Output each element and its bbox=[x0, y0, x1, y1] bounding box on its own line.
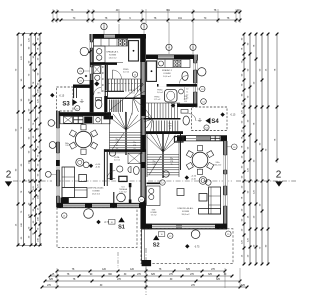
svg-text:11: 11 bbox=[186, 92, 188, 94]
bathroom wall left unit bbox=[105, 65, 107, 90]
windows in right wall upper bbox=[193, 63, 197, 70]
svg-text:14,6 m2: 14,6 m2 bbox=[163, 76, 172, 78]
svg-text:5,0 m2: 5,0 m2 bbox=[123, 72, 130, 74]
terrace step label right bbox=[158, 232, 165, 237]
WC toilet right unit top bbox=[182, 72, 188, 81]
svg-text:+0.10: +0.10 bbox=[191, 176, 197, 178]
svg-text:178: 178 bbox=[133, 145, 136, 147]
left stair landing dark edge bbox=[105, 97, 142, 99]
bathroom wc dark diamond bbox=[94, 81, 99, 86]
bathroom tub left unit bbox=[93, 66, 100, 74]
wc diamond right unit bbox=[171, 103, 176, 108]
right stair landing dark edge bbox=[144, 118, 181, 120]
dining round table left unit bbox=[75, 131, 91, 147]
svg-text:25x: 25x bbox=[116, 139, 119, 141]
S2 entrance marker bbox=[153, 235, 159, 240]
right unit top-right corner pier bbox=[193, 55, 198, 61]
mid bathroom door swing bbox=[107, 171, 115, 179]
porch toilet right unit bbox=[183, 116, 189, 125]
window in left wall upper bbox=[90, 42, 93, 48]
svg-text:49: 49 bbox=[116, 145, 118, 147]
svg-text:SPAVACA S.: SPAVACA S. bbox=[106, 50, 119, 53]
circled number on party wall bbox=[139, 197, 145, 203]
circled number in hall bbox=[132, 72, 137, 77]
bottom wall windows left unit bbox=[63, 204, 85, 207]
window in right unit top wall bbox=[158, 55, 174, 58]
svg-text:1,20 m2: 1,20 m2 bbox=[119, 192, 127, 194]
bottom wall piers right unit bbox=[141, 224, 152, 229]
coffee table right unit bbox=[199, 194, 207, 202]
grid bubble axis 2 top-left bbox=[103, 22, 105, 34]
svg-text:+0.10: +0.10 bbox=[95, 164, 101, 166]
svg-text:-0.75: -0.75 bbox=[104, 222, 110, 224]
washer boxes with X bbox=[64, 116, 73, 123]
svg-text:-0.15: -0.15 bbox=[59, 94, 65, 97]
dark appliance box bbox=[84, 117, 92, 124]
kitchen corner right unit lower bbox=[147, 186, 161, 206]
svg-text:2: 2 bbox=[276, 170, 282, 181]
right unit lower exterior wall east bbox=[224, 141, 227, 229]
left stair up-arrow diagonal bbox=[110, 83, 143, 110]
armchair circles left unit bbox=[76, 158, 84, 166]
left stair wall dark segment bbox=[104, 96, 107, 112]
laundry wall left unit bbox=[57, 112, 111, 116]
left stair wall stub dark bbox=[104, 116, 114, 120]
porch dashed outline S4 bbox=[192, 107, 228, 131]
left unit left exterior wall upper bbox=[90, 34, 93, 87]
counter divisions bbox=[93, 116, 95, 124]
right unit porch top wall stub bbox=[177, 104, 197, 108]
kitchen stove burners bbox=[118, 39, 127, 46]
grid bubble axis 4 top-right bbox=[168, 22, 170, 54]
L-sofa left unit bbox=[62, 167, 75, 198]
circled number at porch bbox=[75, 106, 80, 111]
svg-text:4,6 m2: 4,6 m2 bbox=[114, 160, 120, 162]
door gap in hall wall bbox=[159, 84, 167, 87]
terrace circled number right bbox=[168, 233, 173, 238]
porch level diamond and -0.15 label bbox=[50, 93, 54, 97]
right stair lower fan winders bbox=[147, 137, 164, 153]
svg-text:5,0 m2: 5,0 m2 bbox=[157, 92, 163, 94]
circled number right of entrance wall bbox=[232, 144, 238, 150]
column pier at living room wall bbox=[61, 198, 69, 208]
party wall dark segments bbox=[141, 95, 146, 116]
kitchen counter right unit bbox=[157, 60, 190, 68]
svg-text:SPAVAC.1: SPAVAC.1 bbox=[162, 69, 173, 72]
axis stub line without bubble bbox=[118, 24, 120, 34]
windows in right wall lower bbox=[223, 155, 227, 170]
left stair upper fan winders bbox=[133, 84, 144, 98]
left dimension ticks bbox=[17, 33, 20, 36]
svg-text:-0.10: -0.10 bbox=[191, 178, 197, 180]
left stair centre pole dark bbox=[125, 112, 127, 155]
hall wall right unit bbox=[157, 84, 197, 87]
svg-text:KOMBI: KOMBI bbox=[163, 73, 170, 75]
right stair bottom circle bbox=[163, 171, 169, 177]
entrance wall right unit bbox=[177, 136, 227, 141]
svg-text:-0.15: -0.15 bbox=[230, 114, 236, 117]
mid bathroom fixtures bbox=[128, 153, 141, 164]
bathroom sink right unit bbox=[179, 89, 184, 94]
left exterior wall lower bbox=[57, 111, 60, 207]
terrace bottom step dark bbox=[142, 260, 152, 266]
svg-text:S3: S3 bbox=[62, 102, 70, 108]
left stair lower twin flight treads bbox=[110, 132, 126, 134]
shaft box with cross bbox=[74, 116, 84, 123]
WC toilet left unit bbox=[95, 100, 102, 109]
circled number right terrace corner bbox=[226, 231, 232, 237]
right stair lower treads after landing bbox=[153, 121, 155, 134]
svg-text:KUPA.: KUPA. bbox=[114, 156, 120, 159]
right stair break diagonal bbox=[149, 156, 161, 175]
right stair upper flight vertical treads bbox=[148, 103, 150, 118]
coffee table left unit bbox=[79, 175, 87, 182]
dining chairs right unit bbox=[197, 169, 202, 174]
bathroom dark cabinet box bbox=[119, 176, 127, 181]
top dimension ticks row2 bbox=[52, 19, 55, 22]
party wall dark blob near bathroom bbox=[141, 162, 146, 168]
svg-text:25x: 25x bbox=[153, 161, 156, 163]
stair number column right unit bbox=[184, 87, 186, 100]
right stair landing circled number bbox=[160, 180, 165, 185]
svg-text:TERASA: TERASA bbox=[119, 188, 128, 191]
level diamond +0.10 bbox=[89, 164, 93, 168]
kitchen top counter bbox=[94, 39, 128, 47]
porch level diamond right bbox=[220, 112, 224, 116]
drying room walls left unit bbox=[113, 192, 115, 203]
door swing right unit top bbox=[180, 76, 188, 84]
right stair lower twin flight treads bbox=[147, 154, 162, 156]
right stair mid wall bbox=[146, 131, 183, 134]
grid bubble axis 5 top-right bbox=[192, 22, 194, 54]
right dimension ticks bbox=[243, 33, 246, 36]
right unit right exterior wall upper bbox=[194, 55, 197, 108]
hall door swing arc left unit bbox=[113, 70, 122, 79]
terrace circled number bbox=[62, 213, 67, 218]
porch wall stub left unit bbox=[73, 85, 90, 88]
bathroom inner wall dark bbox=[110, 163, 113, 180]
vertical centre dash-dot line bbox=[145, 248, 147, 295]
svg-text:DNEVNI+BLAG.: DNEVNI+BLAG. bbox=[178, 207, 194, 210]
entrance porch dashed outline S3 bbox=[57, 87, 74, 111]
left stair enclosure wall west bbox=[104, 65, 106, 118]
svg-text:S4: S4 bbox=[211, 119, 219, 125]
svg-text:25: 25 bbox=[169, 128, 171, 130]
terrace left edge solid bbox=[141, 229, 143, 263]
terrace circle symbol bbox=[84, 209, 94, 219]
svg-text:WC: WC bbox=[97, 93, 101, 95]
grid bubbles on left wall bbox=[48, 120, 55, 127]
svg-text:KOMBI: KOMBI bbox=[182, 211, 189, 213]
left stair flight side rails bbox=[109, 112, 111, 154]
svg-text:S1: S1 bbox=[118, 225, 125, 231]
kitchen sink right unit bbox=[159, 61, 164, 66]
left stair upper flight vertical treads bbox=[108, 79, 110, 92]
svg-text:KOMBI: KOMBI bbox=[109, 54, 116, 56]
kitchen stove right unit bbox=[174, 60, 182, 67]
grid bubble on section line left bbox=[45, 171, 51, 177]
right stair centre pole dark bbox=[162, 133, 164, 178]
bathroom sink left unit bbox=[95, 75, 100, 80]
right stair east wall bbox=[180, 134, 182, 170]
svg-text:10: 10 bbox=[186, 89, 188, 91]
grid bubble right of wall bbox=[198, 68, 206, 76]
window in top wall bbox=[104, 35, 115, 38]
S1 entrance marker bbox=[118, 217, 124, 222]
svg-text:26,6 m2: 26,6 m2 bbox=[92, 194, 101, 196]
svg-text:10: 10 bbox=[111, 222, 113, 224]
windows in left wall lower bbox=[56, 128, 59, 142]
left unit top-left corner pier bbox=[90, 34, 94, 40]
circled numbers left of building bbox=[78, 68, 84, 74]
kitchen sink unit left bbox=[94, 46, 106, 63]
svg-text:230+120: 230+120 bbox=[214, 165, 221, 167]
party wall full double line bbox=[141, 62, 145, 229]
svg-text:DNEVNI+BLAG.: DNEVNI+BLAG. bbox=[88, 187, 104, 190]
svg-text:-0.10: -0.10 bbox=[95, 167, 101, 169]
fridge cabinet right unit bbox=[147, 61, 157, 81]
window in left wall mid bbox=[90, 67, 93, 74]
left unit bottom exterior wall bbox=[57, 203, 146, 207]
dining round table right unit bbox=[192, 152, 208, 168]
svg-text:KOMBI: KOMBI bbox=[92, 191, 99, 193]
small level diamond between bbox=[85, 75, 88, 78]
svg-text:25x: 25x bbox=[170, 158, 173, 160]
wall below kitchen left unit bbox=[90, 62, 117, 65]
top dimension extension lines bbox=[52, 9, 54, 23]
section line 2-2 dash-dot horizontal bbox=[13, 180, 52, 182]
right terrace dashed outline bbox=[141, 229, 233, 264]
svg-text:-0.75: -0.75 bbox=[194, 246, 200, 248]
level diamond right unit +0.10 bbox=[185, 175, 189, 179]
left unit top exterior wall bbox=[90, 34, 146, 39]
svg-text:1,71 m2: 1,71 m2 bbox=[154, 99, 161, 101]
armchair right unit bbox=[199, 177, 207, 185]
terrace level diamond right bbox=[185, 244, 189, 248]
bottom dimension ticks bbox=[56, 270, 59, 273]
interior dimension string left unit bbox=[101, 65, 103, 92]
right unit top exterior wall bbox=[146, 55, 198, 60]
bottom dimension chain lines bbox=[57, 270, 225, 272]
WC room west wall dark bbox=[90, 80, 94, 112]
left stair second landing edge bbox=[105, 90, 125, 92]
mid bathroom walls left unit bbox=[104, 149, 146, 152]
S4 entrance marker bbox=[205, 118, 210, 124]
right stair closet box bbox=[175, 137, 184, 143]
svg-text:25x: 25x bbox=[133, 142, 136, 144]
laundry sink circle bbox=[96, 118, 100, 122]
right dimension chain lines bbox=[243, 33, 245, 265]
dining chairs left unit bbox=[81, 149, 86, 154]
top dimension chain lines bbox=[53, 11, 240, 13]
bottom wall windows right unit bbox=[152, 225, 176, 229]
L-sofa right unit bbox=[209, 187, 221, 214]
dark segment on left wall bbox=[56, 160, 60, 166]
left dimension chain lines bbox=[17, 33, 19, 246]
left stair compressed winder cluster bbox=[109, 100, 111, 113]
left stair break diagonal bbox=[111, 133, 124, 151]
left chain top and bottom connectors bbox=[18, 33, 42, 35]
svg-text:178: 178 bbox=[170, 161, 173, 163]
party wall upper dark segment bbox=[140, 39, 146, 63]
WC door swing bbox=[94, 88, 102, 96]
right dimension partial line bbox=[276, 33, 278, 163]
porch door swing right bbox=[189, 114, 197, 122]
right unit bottom exterior wall bbox=[141, 224, 227, 229]
grid bubble axis 3 top bbox=[143, 22, 145, 38]
window cross in entrance wall bbox=[210, 136, 220, 141]
svg-text:35,8 m2: 35,8 m2 bbox=[182, 214, 191, 216]
left stair lower fan winders bbox=[109, 117, 126, 131]
right stair side rails bbox=[146, 134, 148, 177]
terrace small step label bbox=[109, 220, 116, 225]
bathtub right unit bbox=[165, 90, 178, 103]
left stair dashed headroom line bbox=[108, 83, 141, 85]
circled numbers at right porch bbox=[201, 99, 207, 105]
svg-text:2: 2 bbox=[6, 170, 12, 181]
left terrace dashed outline bbox=[57, 208, 137, 248]
right stair upper fan winders bbox=[145, 108, 153, 119]
top dimension ticks row1 bbox=[52, 11, 55, 14]
svg-text:5,0 m2: 5,0 m2 bbox=[129, 92, 135, 94]
bathroom sink circle left bbox=[117, 166, 123, 172]
grid bubble left of kitchen bbox=[80, 47, 88, 55]
laundry counter row bbox=[60, 116, 110, 124]
circled numbers right wall outside bbox=[200, 86, 205, 91]
svg-text:7,5 m2: 7,5 m2 bbox=[151, 215, 157, 217]
terrace circle symbol right bbox=[191, 230, 200, 239]
svg-text:25: 25 bbox=[171, 164, 173, 166]
svg-text:25: 25 bbox=[134, 148, 136, 150]
terrace level diamond bbox=[96, 220, 100, 224]
svg-text:14,6 m2: 14,6 m2 bbox=[109, 57, 118, 59]
bottom wall piers dark bbox=[57, 203, 63, 208]
interior door gap lines bbox=[117, 61, 123, 63]
left stair bottom circle bbox=[109, 150, 115, 156]
bottom dimension extension lines bbox=[56, 268, 58, 288]
svg-text:S2: S2 bbox=[153, 243, 160, 249]
side table right unit bbox=[177, 189, 184, 196]
fridge cabinet left unit bbox=[129, 41, 139, 61]
svg-text:10: 10 bbox=[161, 234, 163, 236]
drying room circle left unit bbox=[117, 193, 126, 202]
svg-text:0.9: 0.9 bbox=[184, 101, 187, 103]
